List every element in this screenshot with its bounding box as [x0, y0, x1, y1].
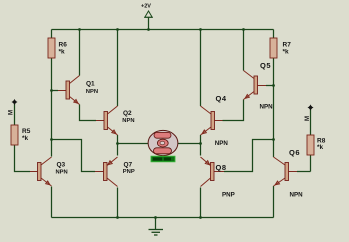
- svg-text:Q8: Q8: [216, 163, 227, 172]
- svg-text:Q2: Q2: [123, 110, 132, 117]
- svg-text:NPN: NPN: [260, 104, 274, 111]
- svg-text:*k: *k: [59, 48, 66, 55]
- svg-text:NPN: NPN: [215, 140, 229, 147]
- svg-text:Q6: Q6: [289, 148, 300, 157]
- svg-text:Q5: Q5: [260, 61, 271, 70]
- svg-text:*k: *k: [283, 48, 290, 55]
- svg-text:*k: *k: [317, 144, 324, 151]
- svg-text:NPN: NPN: [86, 89, 98, 95]
- svg-text:NPN: NPN: [122, 118, 134, 124]
- svg-text:Q4: Q4: [216, 94, 227, 103]
- svg-text:Q3: Q3: [57, 161, 66, 168]
- svg-text:Q1: Q1: [86, 80, 95, 87]
- svg-text:NPN: NPN: [56, 169, 68, 175]
- svg-text:PNP: PNP: [222, 192, 235, 199]
- svg-text:*k: *k: [22, 135, 29, 142]
- svg-text:PNP: PNP: [123, 169, 135, 175]
- svg-text:NPN: NPN: [290, 192, 304, 199]
- svg-text:M: M: [305, 116, 311, 121]
- svg-text:M: M: [9, 110, 15, 115]
- svg-text:Q7: Q7: [124, 161, 133, 168]
- svg-text:+2V: +2V: [141, 4, 151, 10]
